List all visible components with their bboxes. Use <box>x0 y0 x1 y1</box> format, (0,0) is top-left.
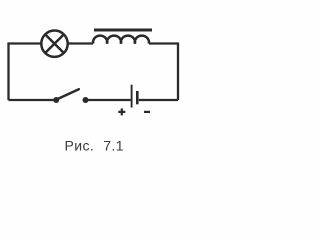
svg-text:Рис.: Рис. <box>65 137 95 153</box>
svg-text:7.1: 7.1 <box>103 137 124 153</box>
